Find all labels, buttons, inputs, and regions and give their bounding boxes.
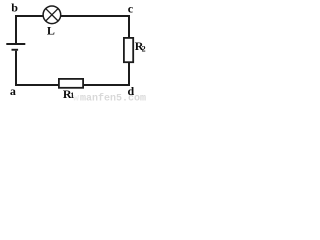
svg-text:b: b bbox=[11, 0, 18, 14]
wire top-left (b to lamp) bbox=[15, 15, 44, 17]
svg-text:d: d bbox=[128, 84, 135, 98]
wire left lower (battery down to a) bbox=[15, 51, 17, 86]
wire bottom-right (R1 to d) bbox=[83, 84, 130, 86]
battery long plate (+) bbox=[6, 43, 25, 45]
wire bottom-left (a to R1) bbox=[15, 84, 59, 86]
svg-text:c: c bbox=[128, 2, 134, 16]
svg-text:2: 2 bbox=[142, 44, 146, 53]
lamp L (circle with X) bbox=[43, 6, 61, 24]
svg-text:1: 1 bbox=[70, 91, 74, 100]
resistor R2 box bbox=[124, 38, 133, 62]
wire right lower (R2 down to d) bbox=[128, 62, 130, 86]
svg-text:manfen5.com: manfen5.com bbox=[80, 93, 146, 102]
wire right upper (c down to R2) bbox=[128, 15, 130, 39]
battery short plate (-) bbox=[12, 49, 19, 51]
svg-text:a: a bbox=[10, 84, 16, 98]
watermark manfen5.com bbox=[73, 93, 146, 105]
wire left upper (b down to battery) bbox=[15, 15, 17, 44]
svg-text:L: L bbox=[47, 24, 55, 38]
wire top-right (lamp to c) bbox=[61, 15, 131, 17]
resistor R1 box bbox=[59, 79, 83, 88]
